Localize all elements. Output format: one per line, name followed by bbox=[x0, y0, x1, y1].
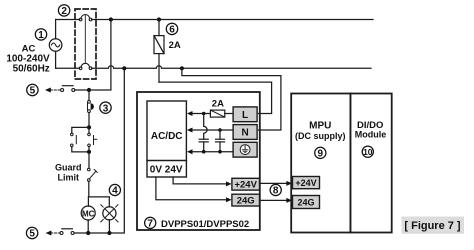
node: return to N rail bbox=[122, 66, 126, 70]
MC coil bbox=[81, 206, 95, 220]
wire bbox=[88, 113, 90, 128]
arrow into MPU 24G bbox=[286, 198, 292, 203]
parallel contact left branch bbox=[71, 127, 90, 151]
terminal L bbox=[233, 107, 257, 122]
svg-text:4: 4 bbox=[112, 186, 118, 197]
wire bbox=[88, 152, 90, 168]
wire: PE terminal to converter bbox=[192, 151, 233, 153]
wire MC to bottom rail bbox=[87, 220, 89, 233]
emergency stop switch S1 (item 5 top) bbox=[51, 86, 75, 92]
arrow into MPU +24V bbox=[286, 181, 292, 186]
label AC ratings bbox=[6, 44, 50, 75]
wire bbox=[87, 197, 89, 206]
arrow into +24V bbox=[226, 181, 232, 186]
terminal +24V (MPU) bbox=[293, 177, 320, 189]
wire: 24V output to +24V terminal bbox=[173, 177, 227, 184]
terminal N bbox=[233, 125, 257, 140]
AC source V1 bbox=[49, 20, 62, 69]
DI/DO module box (item 10) bbox=[350, 94, 391, 233]
svg-text:N: N bbox=[241, 128, 248, 139]
parallel contact right branch (MC aux) bbox=[88, 127, 97, 151]
svg-text:2A: 2A bbox=[169, 40, 181, 51]
circuit breaker top pole bbox=[79, 14, 92, 20]
svg-text:7: 7 bbox=[147, 219, 153, 230]
fuse F1 2A (item 6) bbox=[154, 17, 164, 82]
wire: 24G to MPU bbox=[260, 199, 288, 201]
circled 8 bbox=[270, 184, 281, 196]
node: stop switch to power switch junction bbox=[87, 88, 91, 92]
svg-text:5: 5 bbox=[29, 229, 35, 240]
terminal +24V (PS) bbox=[232, 178, 260, 190]
wire: top rail down to stop switch (item 5) bbox=[75, 17, 113, 90]
svg-text:0V 24V: 0V 24V bbox=[150, 164, 183, 175]
wire: +24V to MPU bbox=[260, 182, 288, 184]
svg-text:Limit: Limit bbox=[58, 172, 80, 182]
svg-text:L: L bbox=[242, 110, 248, 121]
circled 2 bbox=[58, 5, 69, 17]
terminal PE ground bbox=[233, 142, 257, 157]
node bbox=[87, 125, 91, 129]
breaker mechanical link bbox=[84, 15, 86, 64]
wire branch to lamp bbox=[89, 197, 110, 207]
internal fuse 2A bbox=[210, 110, 224, 117]
svg-text:1: 1 bbox=[38, 30, 44, 41]
terminal 24G (PS) bbox=[232, 194, 260, 206]
svg-text:DVPPS01/DVPPS02: DVPPS01/DVPPS02 bbox=[161, 219, 249, 230]
terminal 24G (MPU) bbox=[293, 196, 320, 209]
svg-text:9: 9 bbox=[318, 149, 324, 160]
node bbox=[87, 150, 91, 154]
circled 10 bbox=[362, 146, 373, 157]
circled 5 top bbox=[27, 84, 38, 96]
svg-text:50/60Hz: 50/60Hz bbox=[13, 64, 50, 75]
svg-text:[ Figure 7 ]: [ Figure 7 ] bbox=[404, 220, 461, 232]
label DI/DO Module bbox=[355, 120, 387, 140]
circled 5 bottom bbox=[26, 227, 37, 239]
wire bbox=[88, 90, 90, 101]
svg-text:8: 8 bbox=[273, 186, 279, 197]
svg-text:(DC supply): (DC supply) bbox=[295, 131, 346, 141]
svg-text:Guard: Guard bbox=[55, 163, 82, 173]
svg-text:24G: 24G bbox=[297, 197, 314, 207]
arrow into 24G bbox=[226, 197, 232, 202]
power switch S2 (item 3) bbox=[88, 100, 94, 112]
svg-text:5: 5 bbox=[30, 86, 36, 97]
arrow into converter (N) bbox=[187, 128, 193, 133]
svg-text:6: 6 bbox=[169, 25, 175, 36]
circuit breaker CB (item 2) dashed enclosure bbox=[75, 9, 96, 79]
svg-text:MC: MC bbox=[82, 209, 95, 218]
svg-text:2: 2 bbox=[61, 6, 67, 17]
wire: bottom return rail bbox=[74, 68, 124, 233]
label MPU bbox=[295, 121, 346, 142]
circled 4 bbox=[109, 184, 120, 196]
figure label bbox=[402, 217, 465, 234]
circled 6 bbox=[166, 23, 177, 35]
svg-text:3: 3 bbox=[103, 103, 109, 114]
arrow to item 5 top bbox=[45, 88, 51, 93]
svg-text:Module: Module bbox=[355, 130, 387, 140]
circuit breaker bottom pole bbox=[79, 63, 92, 69]
AC/DC converter box bbox=[147, 101, 186, 177]
guard limit switch S3 bbox=[88, 168, 98, 181]
arrow to item 5 bottom bbox=[46, 231, 52, 236]
MPU box (item 9) bbox=[291, 94, 350, 233]
circled 3 bbox=[100, 102, 111, 114]
arrow into converter (PE) bbox=[187, 149, 193, 154]
label Guard Limit bbox=[55, 163, 82, 183]
svg-text:+24V: +24V bbox=[295, 178, 316, 188]
wire: top L rail bbox=[56, 19, 373, 21]
indicator lamp bbox=[101, 205, 118, 222]
wire: fuse output to L terminal bbox=[159, 82, 272, 113]
emergency stop switch S4 (item 5 bottom) bbox=[51, 229, 74, 235]
svg-text:+24V: +24V bbox=[234, 180, 257, 191]
capacitor C1 (L-PE) with hop over N bbox=[199, 114, 208, 154]
circled 7 bbox=[145, 217, 156, 229]
svg-text:10: 10 bbox=[363, 147, 373, 157]
wire: N terminal to converter bbox=[192, 129, 233, 131]
svg-text:2A: 2A bbox=[212, 98, 224, 109]
wire: 0V output to 24G terminal bbox=[156, 177, 227, 200]
circled 1 bbox=[35, 29, 46, 41]
arrow into converter (L) bbox=[187, 111, 193, 116]
svg-text:24G: 24G bbox=[237, 195, 255, 206]
svg-text:MPU: MPU bbox=[309, 121, 331, 132]
wire bbox=[88, 181, 90, 197]
node bbox=[86, 231, 90, 235]
capacitor C2 (N-PE) bbox=[216, 128, 225, 153]
wire: bottom N rail with hops bbox=[56, 66, 371, 69]
wire: N rail tap to N terminal bbox=[180, 66, 281, 130]
power supply box (item 7) bbox=[137, 92, 260, 230]
circled 9 bbox=[315, 147, 326, 159]
node bbox=[107, 231, 111, 235]
wire: L terminal to converter bbox=[192, 112, 233, 116]
wire lamp to bottom rail bbox=[108, 220, 110, 233]
svg-text:AC/DC: AC/DC bbox=[151, 131, 183, 142]
